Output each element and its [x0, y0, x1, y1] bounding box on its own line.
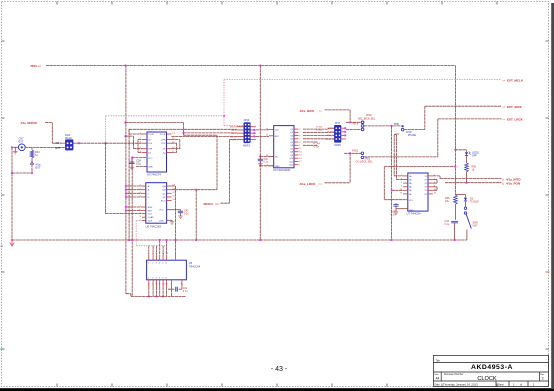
- svg-text:- 43 -: - 43 -: [271, 366, 288, 373]
- U8 left pins: [138, 185, 154, 223]
- wire JP21 to EXT_LRCK riser: [364, 156, 438, 158]
- jumper JP21 LRCK_SEL: [344, 152, 361, 154]
- U7 right pins: [424, 175, 436, 196]
- svg-text:((: ((: [502, 182, 504, 186]
- svg-text:RCO: RCO: [161, 201, 166, 203]
- svg-text:VCC: VCC: [409, 200, 414, 202]
- svg-text:5L_304: 5L_304: [313, 143, 321, 145]
- svg-text:R_305: R_305: [313, 146, 320, 148]
- svg-text:GNT: GNT: [473, 224, 479, 227]
- svg-text:ENP: ENP: [148, 207, 153, 209]
- connector JP16: [244, 123, 251, 143]
- svg-text:R_304: R_304: [316, 130, 323, 132]
- svg-text:>>: >>: [502, 118, 506, 122]
- svg-text:RST: RST: [275, 136, 280, 138]
- U7 gnd and capacitor C43: [396, 208, 408, 210]
- U5 7th top pin from U8 QA: [175, 255, 177, 260]
- svg-text:>>: >>: [502, 105, 506, 109]
- svg-text:JP17: JP17: [335, 122, 341, 125]
- svg-text:2PR: 2PR: [161, 140, 166, 142]
- svg-text:QD: QD: [162, 197, 166, 199]
- svg-text:0.1u: 0.1u: [445, 223, 450, 226]
- colored zone ticks: [1, 348, 5, 350]
- svg-text:MCKO: MCKO: [230, 127, 237, 129]
- svg-text:VD: VD: [275, 156, 278, 158]
- svg-text:1CLR: 1CLR: [148, 134, 154, 136]
- wire MCLK branch horizontal: [106, 115, 224, 117]
- capacitor C24: [451, 221, 458, 223]
- svg-text:4/1a_MCKO2: 4/1a_MCKO2: [21, 121, 38, 125]
- svg-text:VCC: VCC: [148, 158, 153, 160]
- wire CN7 shell: [12, 146, 18, 148]
- svg-text:JP16: JP16: [244, 119, 250, 122]
- svg-text:LRCK: LRCK: [231, 133, 237, 135]
- svg-text:74HCU04: 74HCU04: [189, 264, 201, 268]
- vertical long wire from PDN to bottom net: [259, 66, 261, 241]
- svg-text:U9 74HC4040: U9 74HC4040: [273, 168, 291, 172]
- svg-text:EXT_MCLK: EXT_MCLK: [507, 78, 524, 82]
- svg-text:>>: >>: [215, 202, 219, 206]
- switch SW9: [464, 207, 466, 209]
- svg-text:CLK: CLK: [275, 130, 280, 132]
- svg-text:S_304: S_304: [328, 128, 335, 130]
- svg-text:CLR: CLR: [148, 221, 153, 223]
- jumper JP15 MCLK select: [65, 140, 73, 150]
- svg-text:4/1a_LRCK: 4/1a_LRCK: [300, 182, 317, 186]
- svg-text:U3 74AC74: U3 74AC74: [147, 173, 161, 177]
- inverter U7 74HC04: [408, 173, 428, 211]
- U5 VCC pin right: [181, 280, 183, 289]
- junction: [105, 142, 107, 144]
- svg-text:S_304: S_304: [316, 126, 323, 128]
- U7 input wires: [394, 175, 403, 177]
- wire MCKO to JP16: [229, 139, 236, 141]
- svg-text:MCKO: MCKO: [204, 202, 214, 206]
- wire vertical from JP18 node down: [391, 126, 393, 240]
- U3 feedback loop wires: [126, 122, 184, 124]
- svg-text:VCC: VCC: [159, 210, 164, 212]
- frame zone ticks top/bottom: [56, 2, 58, 5]
- wire MCLK down to U8 clock: [104, 143, 106, 213]
- svg-text:>>: >>: [502, 78, 506, 82]
- wires from INV row to U7 inputs: [394, 134, 396, 136]
- wire R34 to gnd net: [31, 164, 33, 173]
- title block: [434, 355, 549, 386]
- U3 output wires to JP16: [129, 128, 237, 130]
- U9 GND wire: [260, 165, 273, 167]
- resistor R34: [31, 148, 33, 150]
- svg-text:0.1u: 0.1u: [184, 213, 189, 216]
- svg-text:EXT_LRCK: EXT_LRCK: [507, 118, 524, 122]
- wire to JP16: [224, 125, 244, 127]
- wire JP18 to JP19: [364, 125, 401, 127]
- capacitor C41: [168, 288, 174, 290]
- JP16 right wires to U9: [256, 129, 269, 131]
- JP16 side stubs: [237, 127, 256, 140]
- JP17 left pin labels: [326, 128, 335, 141]
- JP16 left pin name text block: [230, 127, 237, 142]
- wire EXT_MCLK horizontal: [224, 79, 502, 81]
- svg-text:2CK: 2CK: [161, 143, 166, 145]
- svg-text:Sheet: Sheet: [498, 384, 505, 387]
- wire CN7 to jumper EXT pin: [25, 146, 65, 148]
- svg-text:AKD4953-A: AKD4953-A: [471, 364, 513, 371]
- U5 top pins: [148, 253, 169, 265]
- wire MCLK selected: [73, 142, 106, 144]
- LED LED21: [454, 149, 456, 151]
- svg-text:ENT: ENT: [148, 211, 153, 213]
- svg-text:2Q: 2Q: [163, 153, 166, 155]
- wire MCKO stub: [221, 202, 230, 204]
- svg-text:INT: INT: [56, 142, 60, 145]
- svg-text:MCLK: MCLK: [65, 137, 72, 140]
- U8 right pins: [161, 185, 176, 203]
- svg-text:PHASE: PHASE: [408, 134, 417, 137]
- U9 VD wire and capacitor C40: [260, 155, 273, 157]
- wire MCKO2: [45, 122, 52, 124]
- wire C28 to U3 VCC: [132, 157, 147, 159]
- U8 QA output down to U5: [172, 185, 176, 187]
- svg-text:2D: 2D: [163, 149, 166, 151]
- svg-text:BICK: BICK: [231, 130, 237, 132]
- U5 input risers from nets: [159, 240, 161, 255]
- svg-text:LRCK_B: LRCK_B: [326, 139, 335, 141]
- svg-text:1Q: 1Q: [148, 153, 151, 155]
- wire MCLK to U3: [106, 142, 142, 144]
- svg-text:0.1u: 0.1u: [183, 290, 188, 293]
- svg-text:PDN: PDN: [31, 64, 37, 68]
- junction: [11, 146, 13, 148]
- wire QB node down to bottom net: [195, 190, 197, 240]
- svg-text:2CLR: 2CLR: [160, 134, 166, 136]
- svg-text:4/1a_PON: 4/1a_PON: [506, 182, 520, 186]
- diode D2: [455, 194, 465, 196]
- junction: [78, 142, 80, 144]
- wire U3 GND: [136, 166, 147, 168]
- svg-text:40SQ: 40SQ: [352, 151, 358, 153]
- wire bottom long horizontal net: [12, 239, 467, 241]
- capacitor C28: [131, 158, 133, 162]
- junction: [31, 172, 33, 174]
- svg-text:A4: A4: [436, 376, 440, 380]
- svg-text:EXT_BICK: EXT_BICK: [507, 105, 523, 109]
- wire vertical MCLK drop: [223, 80, 225, 126]
- svg-text:Date:: Date:: [435, 384, 441, 387]
- U7 left pins: [400, 175, 412, 196]
- U8 VCC wire and capacitor C42: [167, 209, 181, 211]
- wire vertical to U8 QB: [216, 135, 218, 190]
- svg-text:Thursday, January 14, 2013: Thursday, January 14, 2013: [443, 383, 478, 387]
- wire vertical right power drop: [454, 66, 456, 196]
- ground CN7 shell: [14, 147, 16, 151]
- svg-text:0.1u: 0.1u: [264, 162, 269, 164]
- svg-text:SOF5: SOF5: [334, 144, 341, 147]
- svg-text:QA: QA: [162, 185, 166, 188]
- op U3 74AC74 flip-flop: [147, 132, 167, 172]
- wire CLR down to U5 row: [135, 221, 137, 246]
- wire mid horizontal to right power column: [384, 166, 455, 168]
- svg-text:QC: QC: [162, 193, 166, 195]
- page bottom black edge: [0, 388, 554, 391]
- svg-text:CK_LRCK_SEL: CK_LRCK_SEL: [356, 160, 374, 163]
- svg-text:of: of: [520, 384, 522, 387]
- svg-text:SEL_BICK_SEL: SEL_BICK_SEL: [358, 117, 376, 120]
- resistor R58: [465, 163, 469, 172]
- connector JP17: [334, 125, 341, 142]
- U8 GND stub: [167, 219, 172, 221]
- svg-text:0.1u: 0.1u: [136, 163, 141, 166]
- svg-text:45CK: 45CK: [353, 124, 359, 126]
- svg-text:Title: Title: [436, 359, 441, 362]
- resistor R59 10k: [454, 195, 458, 204]
- svg-text:LOAD: LOAD: [148, 216, 154, 219]
- U9 left pins: [266, 128, 280, 168]
- U3 right pins: [160, 133, 176, 155]
- svg-text:EXT: EXT: [19, 140, 24, 143]
- U5 bottom pins: [148, 278, 169, 297]
- wire JP19 to EXT_BICK riser: [404, 129, 425, 131]
- svg-text:EXT: EXT: [56, 147, 61, 150]
- wire to U8 CLK pin: [105, 213, 142, 215]
- wire PON net: [445, 182, 502, 184]
- U3 left pins: [140, 133, 154, 155]
- svg-text:0.1u: 0.1u: [391, 214, 396, 217]
- wire left long vertical: [11, 173, 13, 240]
- svg-text:Document Number: Document Number: [444, 373, 464, 376]
- svg-text:U8 74AC163: U8 74AC163: [146, 225, 162, 229]
- junction: [223, 115, 225, 117]
- wire to jumper INT pin: [52, 142, 65, 144]
- svg-text:GND: GND: [148, 166, 153, 168]
- counter U9 74HC4040: [274, 126, 294, 168]
- svg-text:4/1a_BICK: 4/1a_BICK: [300, 109, 316, 113]
- junction: [11, 172, 13, 174]
- svg-text:>>: >>: [38, 64, 42, 68]
- jumper JP18 BICK_SEL: [346, 121, 361, 123]
- junction: [124, 64, 126, 66]
- inverter U5 74HCU04: [147, 260, 187, 280]
- svg-text:SDTO: SDTO: [231, 136, 237, 138]
- counter U8 74AC163: [146, 183, 167, 224]
- wire power top horizontal: [46, 65, 455, 67]
- U8 input wires to bus verticals: [126, 185, 142, 187]
- wire MCKO2 vertical: [51, 123, 53, 144]
- wire down to U7 VCC: [383, 167, 385, 200]
- U5 GND pin: [171, 280, 173, 289]
- svg-text:TLN119: TLN119: [470, 200, 479, 203]
- wire MCLK branch vertical: [105, 116, 107, 143]
- svg-text:1D: 1D: [148, 140, 151, 142]
- svg-text:CLK: CLK: [148, 143, 153, 145]
- junction: [259, 64, 261, 66]
- wire bottom gnd net: [131, 295, 186, 297]
- U9 right pins Q1-Q12: [289, 129, 302, 167]
- svg-text:CLK: CLK: [148, 214, 153, 216]
- svg-text:U7 74HC04: U7 74HC04: [407, 212, 422, 216]
- wire MCKO riser: [228, 140, 230, 204]
- wire left vertical: [11, 147, 13, 173]
- svg-text:SEL_B: SEL_B: [327, 135, 334, 137]
- wire bottom of R34: [12, 172, 32, 174]
- svg-text:GND: GND: [159, 220, 164, 222]
- vertical bus wires from U3 area down: [125, 66, 127, 294]
- power arrow symbol: [10, 240, 14, 246]
- page right dark edge: [551, 3, 554, 389]
- svg-text:R_304: R_304: [327, 132, 334, 134]
- wire U9 outputs to JP17: [303, 128, 329, 130]
- svg-text:QB: QB: [162, 190, 166, 192]
- svg-text:>>: >>: [319, 109, 323, 113]
- U7 feedback loops right: [433, 179, 437, 181]
- svg-text:OFF: OFF: [472, 155, 477, 158]
- svg-text:MSF3: MSF3: [243, 144, 250, 147]
- svg-text:THR: THR: [394, 123, 399, 126]
- title block text: [435, 359, 546, 386]
- svg-text:GND: GND: [409, 210, 414, 212]
- svg-text:C40: C40: [264, 159, 269, 161]
- svg-text:CLOCK: CLOCK: [477, 376, 497, 382]
- svg-text:GND: GND: [275, 166, 280, 168]
- connector CN7 EXT: [18, 144, 25, 151]
- svg-text:2: 2: [542, 376, 544, 380]
- wire 1Y to INTD: [433, 175, 440, 177]
- svg-text:>>: >>: [319, 182, 323, 186]
- svg-text:1PR: 1PR: [148, 149, 153, 151]
- svg-text:EXT: EXT: [36, 166, 41, 169]
